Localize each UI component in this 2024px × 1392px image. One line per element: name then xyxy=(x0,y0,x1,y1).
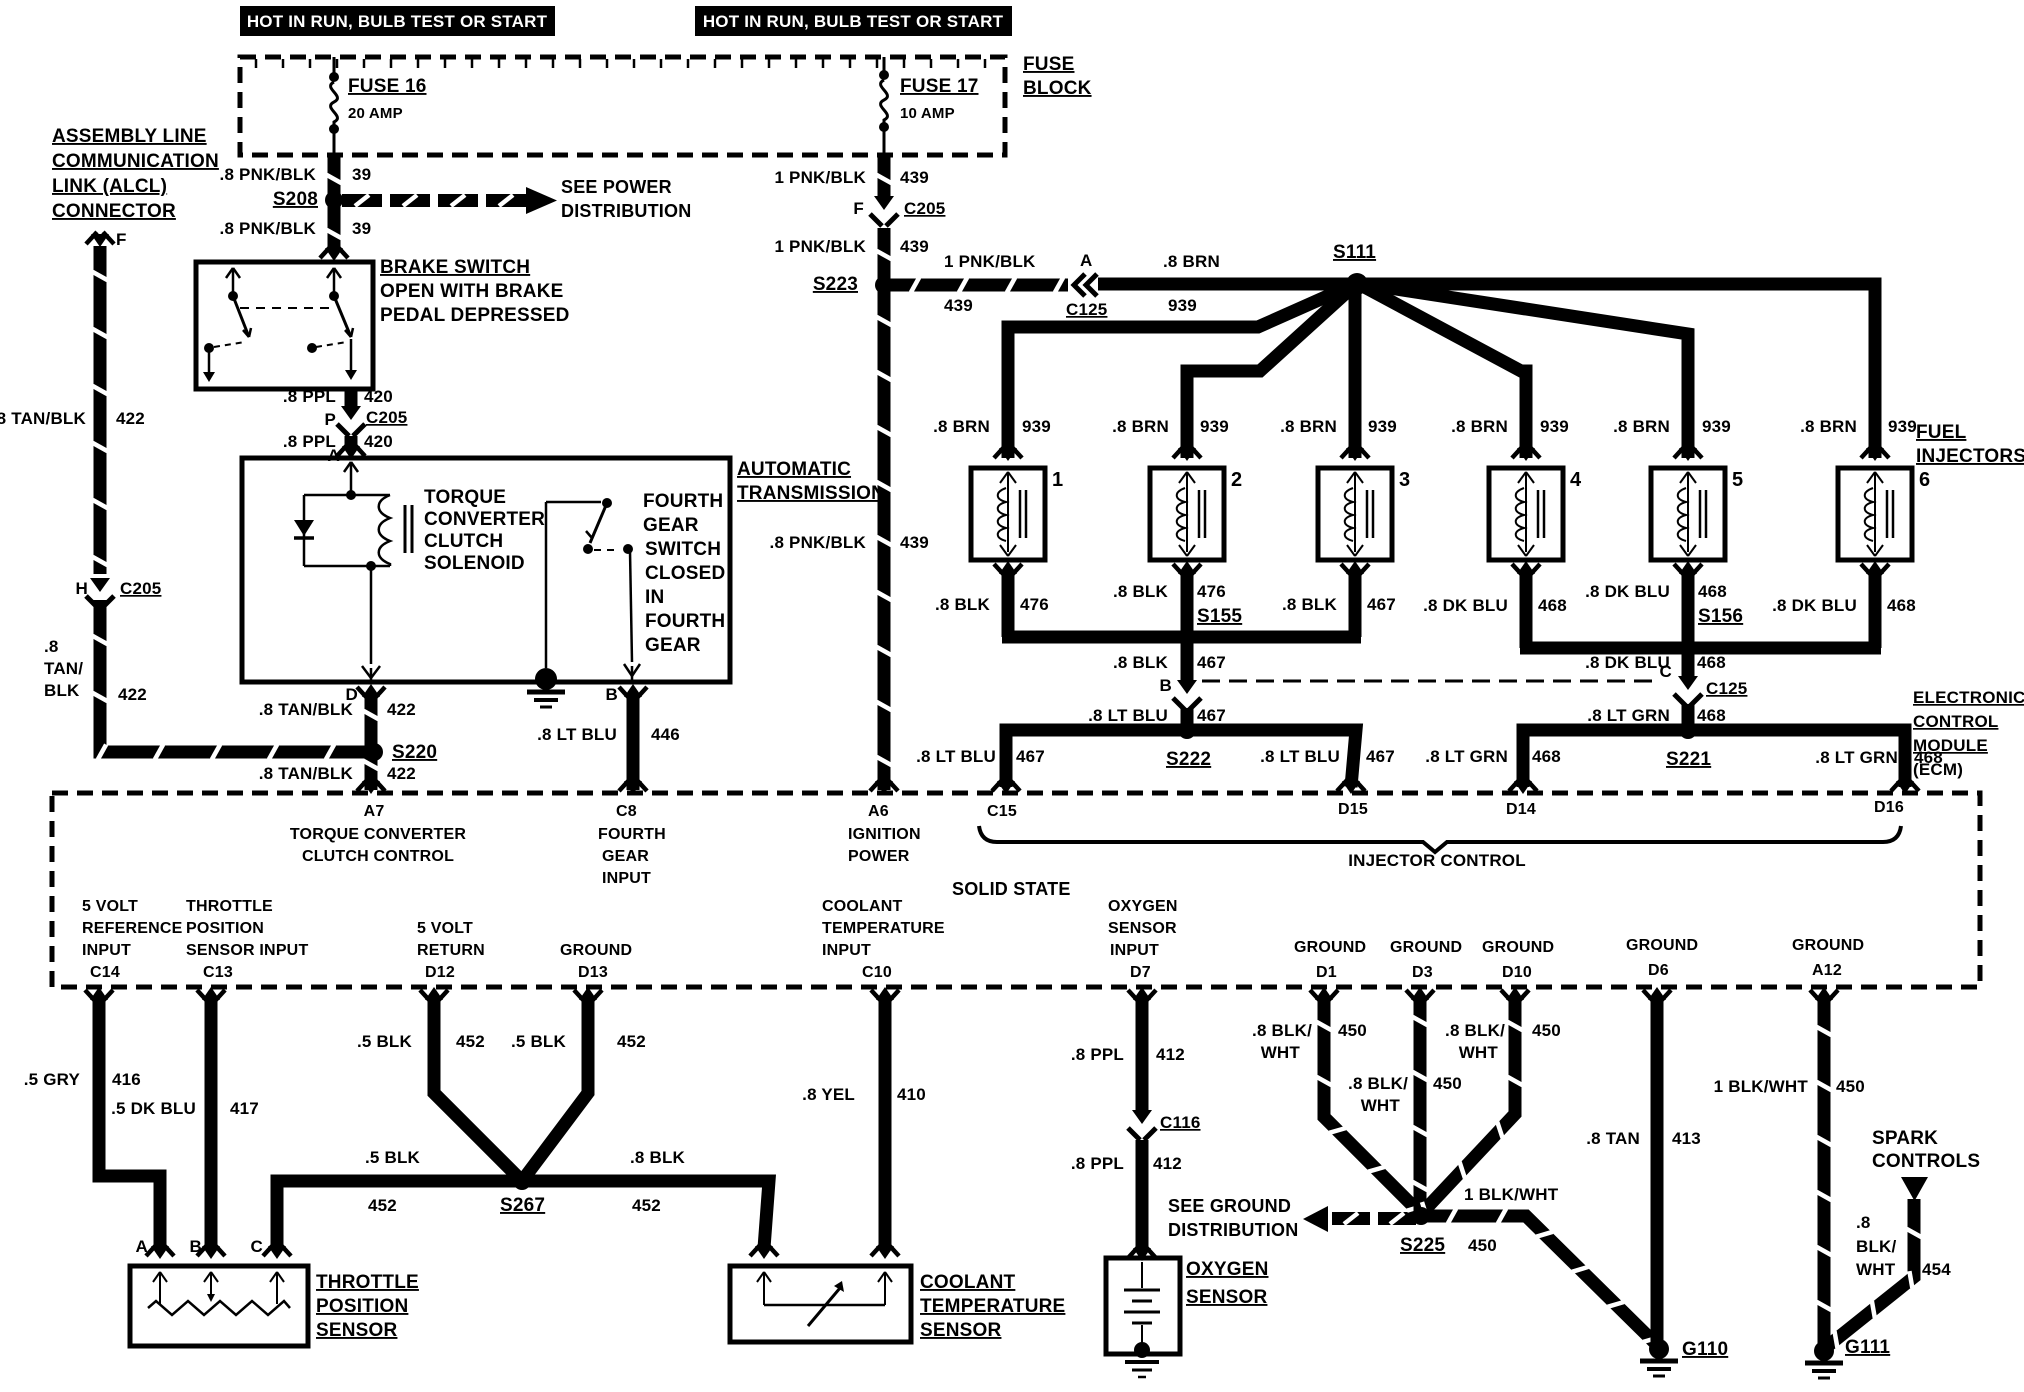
svg-text:439: 439 xyxy=(900,168,929,187)
svg-text:INPUT: INPUT xyxy=(82,942,131,959)
fuel injector 1 xyxy=(994,446,1005,458)
wire .8 TAN 413 from D6 to G110 xyxy=(1643,990,1654,1002)
svg-text:.5 BLK: .5 BLK xyxy=(357,1032,413,1051)
svg-text:468: 468 xyxy=(1532,747,1561,766)
splice S220 xyxy=(365,743,383,761)
svg-text:.8 TAN: .8 TAN xyxy=(1586,1129,1640,1148)
brake switch right pole xyxy=(327,268,334,278)
svg-text:C14: C14 xyxy=(90,964,120,981)
svg-text:GROUND: GROUND xyxy=(1390,939,1462,956)
svg-text:.8 BRN: .8 BRN xyxy=(1280,417,1337,436)
svg-text:SENSOR INPUT: SENSOR INPUT xyxy=(186,942,308,959)
svg-text:.8 BLK/: .8 BLK/ xyxy=(1445,1021,1505,1040)
svg-text:C8: C8 xyxy=(616,803,637,820)
svg-text:GROUND: GROUND xyxy=(1482,939,1554,956)
svg-text:1 BLK/WHT: 1 BLK/WHT xyxy=(1464,1185,1559,1204)
throttle position sensor box xyxy=(130,1266,308,1346)
wire S111 to injector 1 xyxy=(1008,283,1357,458)
banner: HOT IN RUN, BULB TEST OR START (left) xyxy=(240,6,555,36)
fuel injector 4 xyxy=(1512,446,1523,458)
svg-text:POSITION: POSITION xyxy=(316,1296,408,1317)
svg-text:.8 BRN: .8 BRN xyxy=(1163,252,1220,271)
svg-text:TRANSMISSION: TRANSMISSION xyxy=(737,483,885,504)
svg-text:939: 939 xyxy=(1540,417,1569,436)
splice S155 bus xyxy=(1002,631,1361,644)
wire .5 BLK 452 from D13 to S267 xyxy=(574,990,585,1002)
svg-text:POSITION: POSITION xyxy=(186,920,264,937)
svg-text:.8 LT GRN: .8 LT GRN xyxy=(1815,748,1898,767)
svg-text:FOURTH: FOURTH xyxy=(598,826,666,843)
svg-text:467: 467 xyxy=(1366,747,1395,766)
svg-text:1: 1 xyxy=(1052,469,1063,491)
wire injector 6 to S156 xyxy=(1869,570,1882,648)
svg-text:939: 939 xyxy=(1022,417,1051,436)
wire 1 PNK/BLK 439 from S223 to C125 xyxy=(884,279,1068,292)
wire .5 BLK 452 from D12 to S267 xyxy=(420,990,431,1002)
coolant temperature sensor box xyxy=(730,1266,911,1342)
svg-text:S208: S208 xyxy=(273,189,318,210)
svg-text:CLOSED: CLOSED xyxy=(645,563,725,584)
fuse F16 symbol xyxy=(333,57,336,77)
arrow to ground distribution xyxy=(1303,1206,1328,1232)
svg-text:.8 LT BLU: .8 LT BLU xyxy=(1088,706,1168,725)
svg-text:C205: C205 xyxy=(366,408,407,427)
svg-text:S221: S221 xyxy=(1666,749,1711,770)
svg-text:COOLANT: COOLANT xyxy=(822,898,903,915)
svg-text:INPUT: INPUT xyxy=(602,870,651,887)
svg-text:SENSOR: SENSOR xyxy=(316,1320,398,1341)
svg-text:C: C xyxy=(251,1237,263,1256)
svg-text:439: 439 xyxy=(900,237,929,256)
svg-text:5: 5 xyxy=(1732,469,1743,491)
svg-text:S222: S222 xyxy=(1166,749,1211,770)
svg-text:20 AMP: 20 AMP xyxy=(348,105,403,122)
svg-text:C205: C205 xyxy=(120,579,161,598)
svg-text:C205: C205 xyxy=(904,199,945,218)
svg-text:S267: S267 xyxy=(500,1195,545,1216)
svg-text:.8 TAN/BLK: .8 TAN/BLK xyxy=(259,700,354,719)
TCC solenoid coil xyxy=(379,495,390,566)
oxygen sensor interior battery xyxy=(1141,1262,1143,1288)
svg-text:C13: C13 xyxy=(203,964,233,981)
wire .8 PPL 420 brake switch to C205 xyxy=(345,389,358,410)
svg-text:FOURTH: FOURTH xyxy=(643,491,723,512)
svg-text:468: 468 xyxy=(1697,706,1726,725)
svg-text:SEE POWER: SEE POWER xyxy=(561,177,672,197)
svg-text:.5 DK BLU: .5 DK BLU xyxy=(111,1099,196,1118)
oxygen sensor ground xyxy=(1125,1360,1159,1364)
svg-text:.5 BLK: .5 BLK xyxy=(511,1032,567,1051)
svg-text:D14: D14 xyxy=(1506,801,1536,818)
svg-text:SEE GROUND: SEE GROUND xyxy=(1168,1196,1291,1216)
svg-text:TORQUE CONVERTER: TORQUE CONVERTER xyxy=(290,826,466,843)
svg-text:.5 BLK: .5 BLK xyxy=(365,1148,421,1167)
svg-text:.8 PNK/BLK: .8 PNK/BLK xyxy=(220,219,317,238)
svg-text:THROTTLE: THROTTLE xyxy=(186,898,273,915)
svg-text:.8 DK BLU: .8 DK BLU xyxy=(1585,582,1670,601)
svg-text:A: A xyxy=(136,1237,148,1256)
svg-text:C10: C10 xyxy=(862,964,892,981)
connector C116 xyxy=(1132,1110,1152,1124)
svg-text:.8 PPL: .8 PPL xyxy=(1071,1045,1124,1064)
svg-text:.8 LT BLU: .8 LT BLU xyxy=(537,725,617,744)
automatic transmission box xyxy=(242,458,730,682)
svg-text:H: H xyxy=(76,579,88,598)
coolant sensor interior xyxy=(757,1272,764,1282)
svg-text:ELECTRONIC: ELECTRONIC xyxy=(1913,688,2024,707)
wire injector 5 to S156 xyxy=(1682,570,1695,648)
svg-text:D10: D10 xyxy=(1502,964,1532,981)
diode in TCC solenoid xyxy=(294,520,314,536)
svg-text:D15: D15 xyxy=(1338,801,1368,818)
svg-text:FOURTH: FOURTH xyxy=(645,611,725,632)
fuel injector 2 xyxy=(1173,446,1184,458)
svg-text:.8 BLK/: .8 BLK/ xyxy=(1348,1074,1408,1093)
svg-text:412: 412 xyxy=(1156,1045,1185,1064)
brake switch left pole xyxy=(226,268,233,278)
ground G111 xyxy=(1814,1341,1834,1361)
svg-text:WHT: WHT xyxy=(1361,1096,1401,1115)
svg-text:.8 BLK: .8 BLK xyxy=(935,595,991,614)
svg-text:3: 3 xyxy=(1399,469,1410,491)
svg-text:WHT: WHT xyxy=(1261,1043,1301,1062)
svg-text:SOLID STATE: SOLID STATE xyxy=(952,879,1071,899)
svg-text:.8 YEL: .8 YEL xyxy=(802,1085,855,1104)
wire S111 to injector 3 xyxy=(1349,283,1362,458)
svg-text:CLUTCH CONTROL: CLUTCH CONTROL xyxy=(302,848,454,865)
svg-text:.8 BLK: .8 BLK xyxy=(1113,582,1169,601)
svg-text:6: 6 xyxy=(1919,469,1930,491)
svg-text:TORQUE: TORQUE xyxy=(424,487,506,508)
wire .8 BLK/WHT 454 from spark controls to G111 xyxy=(1824,1199,1914,1349)
brake switch box xyxy=(196,262,373,389)
svg-text:A12: A12 xyxy=(1812,962,1842,979)
svg-text:G110: G110 xyxy=(1682,1339,1728,1360)
fuel injector 6 xyxy=(1861,446,1872,458)
svg-text:C15: C15 xyxy=(987,803,1017,820)
svg-text:452: 452 xyxy=(368,1196,397,1215)
wire .8 YEL 410 from C10 to coolant sensor xyxy=(871,990,882,1002)
svg-text:.8 BLK: .8 BLK xyxy=(1282,595,1338,614)
svg-text:POWER: POWER xyxy=(848,848,910,865)
svg-text:39: 39 xyxy=(352,165,371,184)
svg-text:468: 468 xyxy=(1538,596,1567,615)
svg-text:BRAKE SWITCH: BRAKE SWITCH xyxy=(380,257,530,278)
splice S223 xyxy=(875,276,893,294)
svg-text:FUSE 17: FUSE 17 xyxy=(900,76,979,97)
svg-text:GEAR: GEAR xyxy=(643,515,699,536)
svg-text:CONTROL: CONTROL xyxy=(1913,712,1998,731)
splice S222 bus xyxy=(1006,730,1356,787)
splice S267 bus xyxy=(277,1181,769,1248)
wire .8 PPL 420 C205 to transmission xyxy=(345,436,358,448)
svg-text:1 BLK/WHT: 1 BLK/WHT xyxy=(1714,1077,1809,1096)
svg-text:450: 450 xyxy=(1532,1021,1561,1040)
svg-text:446: 446 xyxy=(651,725,680,744)
svg-text:.8 PPL: .8 PPL xyxy=(283,387,336,406)
svg-text:468: 468 xyxy=(1887,596,1916,615)
svg-text:S155: S155 xyxy=(1197,606,1242,627)
svg-text:.8 BRN: .8 BRN xyxy=(1613,417,1670,436)
svg-text:939: 939 xyxy=(1200,417,1229,436)
svg-text:CLUTCH: CLUTCH xyxy=(424,531,503,552)
svg-text:COOLANT: COOLANT xyxy=(920,1272,1016,1293)
wire .8 PNK/BLK 39 from fuse 16 to S208 xyxy=(328,155,341,196)
fuse block top edge ticks xyxy=(255,59,258,68)
svg-text:422: 422 xyxy=(387,700,416,719)
svg-text:.8 LT BLU: .8 LT BLU xyxy=(916,747,996,766)
oxygen sensor box xyxy=(1106,1258,1180,1354)
svg-text:HOT IN RUN, BULB TEST OR START: HOT IN RUN, BULB TEST OR START xyxy=(703,12,1004,31)
svg-text:.8 BRN: .8 BRN xyxy=(1800,417,1857,436)
splice S156 bus xyxy=(1520,642,1881,655)
svg-text:D16: D16 xyxy=(1874,799,1904,816)
svg-text:GROUND: GROUND xyxy=(560,942,632,959)
svg-text:PEDAL DEPRESSED: PEDAL DEPRESSED xyxy=(380,305,570,326)
svg-text:.8 BLK: .8 BLK xyxy=(1113,653,1169,672)
wire .8 TAN/BLK 422 from ALCL to S220 xyxy=(94,246,107,574)
svg-text:B: B xyxy=(606,685,618,704)
svg-text:COMMUNICATION: COMMUNICATION xyxy=(52,151,219,172)
banner: HOT IN RUN, BULB TEST OR START (right) xyxy=(695,6,1012,36)
svg-text:GROUND: GROUND xyxy=(1294,939,1366,956)
svg-text:C: C xyxy=(1660,662,1672,681)
wire injector 2 to S155 xyxy=(1181,570,1194,637)
connector C205 pin P xyxy=(341,406,361,420)
svg-text:INJECTORS: INJECTORS xyxy=(1916,446,2024,467)
svg-text:SENSOR: SENSOR xyxy=(1108,920,1177,937)
svg-text:5 VOLT: 5 VOLT xyxy=(417,920,473,937)
svg-text:467: 467 xyxy=(1016,747,1045,766)
TCC solenoid circuit xyxy=(344,462,351,472)
wire .8 DK BLU 468 S156 to C C125 xyxy=(1682,652,1695,680)
connector C205 pin H xyxy=(90,578,110,592)
wire .8 LT BLU 467 to S222 xyxy=(1181,708,1194,728)
svg-text:C125: C125 xyxy=(1066,300,1107,319)
svg-text:420: 420 xyxy=(364,432,393,451)
svg-text:SWITCH: SWITCH xyxy=(645,539,721,560)
svg-text:450: 450 xyxy=(1836,1077,1865,1096)
wire .8 BRN 939 from C125 to S111 xyxy=(1098,278,1353,291)
svg-text:.8 DK BLU: .8 DK BLU xyxy=(1585,653,1670,672)
svg-text:.8 PNK/BLK: .8 PNK/BLK xyxy=(220,165,317,184)
wire S111 to injector 4 xyxy=(1357,283,1526,458)
svg-text:IN: IN xyxy=(645,587,664,608)
wire .8 BLK/WHT 450 from D1 to S225 xyxy=(1310,990,1321,1002)
svg-text:D13: D13 xyxy=(578,964,608,981)
svg-text:.8 LT GRN: .8 LT GRN xyxy=(1425,747,1508,766)
svg-text:TEMPERATURE: TEMPERATURE xyxy=(920,1296,1065,1317)
wire .8 LT GRN 468 to S221 xyxy=(1682,704,1695,728)
brake switch mechanical link dashed xyxy=(240,307,332,309)
svg-text:412: 412 xyxy=(1153,1154,1182,1173)
svg-text:TAN/: TAN/ xyxy=(44,659,83,678)
svg-text:INJECTOR CONTROL: INJECTOR CONTROL xyxy=(1348,851,1526,870)
svg-text:A7: A7 xyxy=(364,803,385,820)
svg-text:5 VOLT: 5 VOLT xyxy=(82,898,138,915)
svg-text:.8 BLK/: .8 BLK/ xyxy=(1252,1021,1312,1040)
svg-text:BLK/: BLK/ xyxy=(1856,1237,1897,1256)
svg-text:INPUT: INPUT xyxy=(1110,942,1159,959)
wire 1 PNK/BLK 439 from fuse 17 to C205 F xyxy=(878,155,891,200)
wire injector 1 to S155 xyxy=(1002,570,1015,637)
svg-text:450: 450 xyxy=(1338,1021,1367,1040)
svg-text:SPARK: SPARK xyxy=(1872,1128,1938,1149)
wire S111 to injector 5 xyxy=(1357,283,1688,458)
svg-text:WHT: WHT xyxy=(1459,1043,1499,1062)
svg-text:S223: S223 xyxy=(813,274,858,295)
splice S225 xyxy=(1412,1207,1430,1225)
connector C205 pin F xyxy=(874,196,894,210)
svg-text:IGNITION: IGNITION xyxy=(848,826,921,843)
injector control brace xyxy=(979,826,1901,852)
TPS interior xyxy=(153,1272,160,1282)
svg-text:S225: S225 xyxy=(1400,1235,1445,1256)
fuse block dashed box xyxy=(240,57,1005,155)
svg-text:467: 467 xyxy=(1367,595,1396,614)
ground G110 xyxy=(1649,1339,1669,1359)
svg-text:468: 468 xyxy=(1697,653,1726,672)
svg-text:422: 422 xyxy=(387,764,416,783)
svg-text:.8 PNK/BLK: .8 PNK/BLK xyxy=(770,533,867,552)
svg-text:939: 939 xyxy=(1168,296,1197,315)
svg-text:422: 422 xyxy=(118,685,147,704)
fourth gear switch ground xyxy=(535,668,557,690)
svg-text:SOLENOID: SOLENOID xyxy=(424,553,525,574)
svg-text:WHT: WHT xyxy=(1856,1260,1896,1279)
svg-text:BLK: BLK xyxy=(44,681,80,700)
svg-text:939: 939 xyxy=(1702,417,1731,436)
svg-text:4: 4 xyxy=(1570,469,1582,491)
svg-text:.8 BRN: .8 BRN xyxy=(1451,417,1508,436)
svg-text:CONTROLS: CONTROLS xyxy=(1872,1151,1980,1172)
svg-text:.8 TAN/BLK: .8 TAN/BLK xyxy=(259,764,354,783)
wire 1 BLK/WHT 450 from A12 to G111 xyxy=(1810,990,1821,1002)
svg-text:467: 467 xyxy=(1197,706,1226,725)
svg-text:BLOCK: BLOCK xyxy=(1023,78,1092,99)
wire S111 to injector 6 xyxy=(1357,284,1875,458)
svg-text:452: 452 xyxy=(617,1032,646,1051)
svg-text:452: 452 xyxy=(632,1196,661,1215)
svg-text:S111: S111 xyxy=(1333,242,1376,263)
ALCL pin F xyxy=(86,232,97,244)
svg-text:D6: D6 xyxy=(1648,962,1669,979)
svg-text:39: 39 xyxy=(352,219,371,238)
svg-text:.8 BLK: .8 BLK xyxy=(630,1148,686,1167)
wire .8 BLK/WHT 450 from D10 to S225 xyxy=(1501,990,1512,1002)
svg-text:417: 417 xyxy=(230,1099,259,1118)
svg-text:GROUND: GROUND xyxy=(1792,937,1864,954)
svg-text:FUEL: FUEL xyxy=(1916,422,1967,443)
wire .8 PPL 412 from C116 to oxygen sensor xyxy=(1136,1140,1149,1250)
svg-text:410: 410 xyxy=(897,1085,926,1104)
svg-text:.8 DK BLU: .8 DK BLU xyxy=(1423,596,1508,615)
wire injector 3 to S155 xyxy=(1349,570,1362,637)
svg-text:467: 467 xyxy=(1197,653,1226,672)
wire .8 BLK 467 S155 to B C125 xyxy=(1181,641,1194,684)
svg-text:B: B xyxy=(1160,676,1172,695)
svg-text:A: A xyxy=(1080,251,1092,270)
svg-text:OPEN WITH BRAKE: OPEN WITH BRAKE xyxy=(380,281,564,302)
svg-text:GROUND: GROUND xyxy=(1626,937,1698,954)
splice S208 xyxy=(325,191,343,209)
wire .8 PNK/BLK 39 from S208 to brake switch xyxy=(328,204,341,250)
svg-text:INPUT: INPUT xyxy=(822,942,871,959)
svg-text:B: B xyxy=(190,1237,202,1256)
fuel injector 5 xyxy=(1674,446,1685,458)
svg-text:.8: .8 xyxy=(1856,1213,1871,1232)
svg-text:F: F xyxy=(853,199,864,218)
svg-text:S156: S156 xyxy=(1698,606,1743,627)
ECM dashed box xyxy=(52,793,1980,987)
dashed connector line B to C xyxy=(1202,680,1656,683)
dashed arrow to SEE POWER DISTRIBUTION xyxy=(342,194,382,207)
svg-text:.8 LT BLU: .8 LT BLU xyxy=(1260,747,1340,766)
TCC solenoid core bars xyxy=(404,505,407,553)
svg-text:GEAR: GEAR xyxy=(602,848,649,865)
svg-text:2: 2 xyxy=(1231,469,1242,491)
svg-text:939: 939 xyxy=(1888,417,1917,436)
svg-text:454: 454 xyxy=(1922,1260,1951,1279)
svg-text:FUSE: FUSE xyxy=(1023,54,1074,75)
wire injector 4 to S156 xyxy=(1520,570,1533,648)
svg-text:D3: D3 xyxy=(1412,964,1433,981)
svg-text:.8 TAN/BLK: .8 TAN/BLK xyxy=(0,409,87,428)
svg-text:RETURN: RETURN xyxy=(417,942,485,959)
svg-text:SENSOR: SENSOR xyxy=(1186,1287,1268,1308)
svg-text:CONNECTOR: CONNECTOR xyxy=(52,201,176,222)
svg-text:450: 450 xyxy=(1433,1074,1462,1093)
svg-text:MODULE: MODULE xyxy=(1913,736,1988,755)
svg-text:.5 GRY: .5 GRY xyxy=(24,1070,81,1089)
svg-text:SENSOR: SENSOR xyxy=(920,1320,1002,1341)
svg-text:.8 DK BLU: .8 DK BLU xyxy=(1772,596,1857,615)
svg-text:TEMPERATURE: TEMPERATURE xyxy=(822,920,945,937)
svg-text:422: 422 xyxy=(116,409,145,428)
svg-text:FUSE 16: FUSE 16 xyxy=(348,76,427,97)
svg-text:.8 LT GRN: .8 LT GRN xyxy=(1587,706,1670,725)
svg-text:C125: C125 xyxy=(1706,679,1747,698)
svg-text:C116: C116 xyxy=(1160,1113,1201,1132)
svg-text:439: 439 xyxy=(944,296,973,315)
svg-text:939: 939 xyxy=(1368,417,1397,436)
svg-text:468: 468 xyxy=(1698,582,1727,601)
svg-text:D7: D7 xyxy=(1130,964,1151,981)
svg-text:D12: D12 xyxy=(425,964,455,981)
svg-text:ASSEMBLY LINE: ASSEMBLY LINE xyxy=(52,126,207,147)
svg-text:.8: .8 xyxy=(44,637,59,656)
svg-text:HOT IN RUN, BULB TEST OR START: HOT IN RUN, BULB TEST OR START xyxy=(247,12,548,31)
svg-text:.8 BRN: .8 BRN xyxy=(933,417,990,436)
wire 1 PNK/BLK 439 from C205 to S223 xyxy=(878,228,891,281)
wire .8 PNK/BLK 439 from S223 to A6 xyxy=(878,289,891,790)
svg-text:DISTRIBUTION: DISTRIBUTION xyxy=(1168,1220,1298,1240)
svg-text:452: 452 xyxy=(456,1032,485,1051)
svg-text:1 PNK/BLK: 1 PNK/BLK xyxy=(774,237,866,256)
svg-text:DISTRIBUTION: DISTRIBUTION xyxy=(561,201,691,221)
svg-text:10 AMP: 10 AMP xyxy=(900,105,955,122)
dashed wire arrow to S225 xyxy=(1332,1212,1370,1225)
wire .8 BLK/WHT 450 from D3 to S225 xyxy=(1406,990,1417,1002)
svg-text:A6: A6 xyxy=(868,803,889,820)
svg-text:1 PNK/BLK: 1 PNK/BLK xyxy=(944,252,1036,271)
wire S111 to injector 2 xyxy=(1187,283,1357,458)
wire .8 PPL 412 from D7 to C116 xyxy=(1128,990,1139,1002)
wire .5 DK BLU 417 from C13 to TPS B xyxy=(197,990,208,1002)
svg-text:REFERENCE: REFERENCE xyxy=(82,920,183,937)
svg-text:413: 413 xyxy=(1672,1129,1701,1148)
splice S221 bus xyxy=(1523,730,1905,787)
